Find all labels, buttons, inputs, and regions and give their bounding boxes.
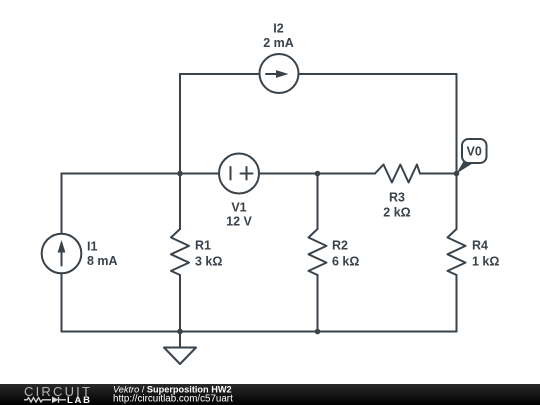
logo diode triangle [52, 397, 59, 404]
wire bottom rail [62, 331, 457, 333]
voltage source V1 circle [219, 154, 259, 194]
svg-text:12 V: 12 V [226, 215, 252, 229]
svg-text:6 kΩ: 6 kΩ [332, 255, 359, 269]
logo diode wire [59, 399, 67, 401]
svg-text:3 kΩ: 3 kΩ [195, 255, 222, 269]
node junction dot middle-R1 [177, 171, 183, 177]
ground triangle [164, 348, 196, 365]
wire top-left drop to middle rail [179, 74, 181, 174]
logo diode bar [58, 397, 60, 403]
wire middle rail left segment [62, 173, 220, 175]
svg-text:R2: R2 [332, 239, 348, 253]
V1 plus sign horizontal [241, 173, 253, 175]
svg-text:V0: V0 [467, 145, 482, 159]
I2 arrow shaft [266, 73, 278, 75]
svg-text:2 mA: 2 mA [263, 36, 294, 50]
node junction dot bottom-ground [177, 329, 183, 335]
wire middle rail right segment [420, 173, 457, 175]
resistor R2 [309, 229, 327, 275]
svg-text:1 kΩ: 1 kΩ [472, 255, 499, 269]
wire R1 column lower [179, 275, 181, 332]
wire R2 column lower [317, 275, 319, 332]
resistor R3 [375, 165, 420, 183]
svg-text:2 kΩ: 2 kΩ [383, 206, 410, 220]
wire right rail lower [456, 275, 458, 332]
svg-text:I1: I1 [87, 240, 97, 254]
wire top rail right segment [299, 73, 457, 75]
svg-text:V1: V1 [231, 201, 246, 215]
svg-text:I2: I2 [273, 22, 283, 36]
wire R2 column upper [317, 174, 319, 230]
wire top rail left segment [180, 73, 260, 75]
current source I2 circle [260, 54, 299, 93]
svg-text:LAB: LAB [67, 395, 92, 405]
I2 arrow head [276, 70, 289, 78]
current source I1 circle [42, 234, 82, 274]
node V0 flag box [462, 139, 487, 163]
svg-text:8 mA: 8 mA [87, 254, 118, 268]
I1 arrow shaft [61, 250, 63, 266]
V1 minus terminal bar [230, 167, 232, 180]
wire left rail upper [61, 174, 63, 235]
svg-text:http://circuitlab.com/c57uart: http://circuitlab.com/c57uart [113, 394, 233, 405]
node junction dot middle-R2 [315, 171, 321, 177]
resistor R1 [171, 229, 189, 275]
logo resistor squiggle [24, 398, 51, 402]
wire left rail lower [61, 274, 63, 332]
wire middle rail center segment [259, 173, 375, 175]
svg-text:R3: R3 [389, 191, 405, 205]
footer bar [0, 384, 540, 405]
resistor R4 [448, 229, 466, 275]
I1 arrow head [58, 240, 66, 253]
svg-text:R1: R1 [195, 239, 211, 253]
V1 plus sign vertical [246, 167, 248, 180]
node V0 junction dot [454, 171, 460, 177]
wire right rail upper [456, 74, 458, 229]
wire R1 column upper [179, 174, 181, 230]
ground stub [179, 332, 181, 348]
node junction dot bottom-R2 [315, 329, 321, 335]
svg-text:R4: R4 [472, 239, 488, 253]
node V0 flag pointer [457, 161, 473, 174]
